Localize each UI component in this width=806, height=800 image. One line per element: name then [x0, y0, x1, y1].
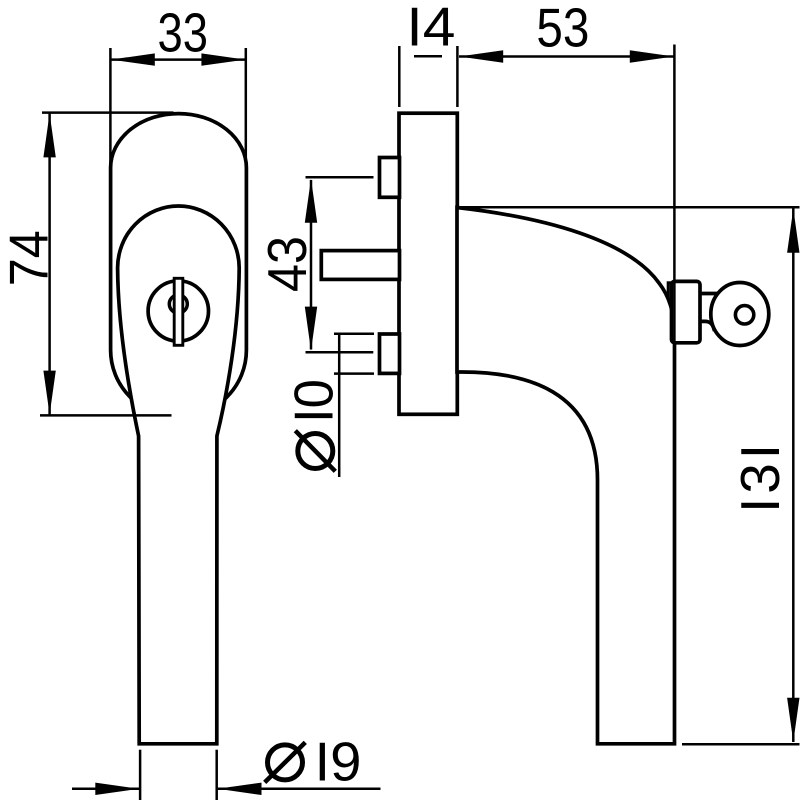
dim 43 arrow top [305, 179, 317, 223]
svg-text:74: 74 [0, 230, 60, 286]
flange behind handle [668, 283, 673, 341]
dim Ø10 leader line [338, 334, 341, 477]
dim 43 arrow bottom [305, 307, 317, 351]
top screw pin [380, 158, 400, 198]
dim 33 line [111, 58, 246, 61]
keyhole outer circle [148, 281, 208, 341]
dim 53 line [459, 55, 674, 58]
keyhole slot bar [174, 278, 183, 345]
dim 53/131 shared extension line (right of handle) [673, 45, 676, 744]
svg-text:33: 33 [158, 1, 209, 63]
bottom screw pin [380, 334, 400, 373]
dim 33 extension line left [109, 48, 112, 166]
lock knob [672, 281, 701, 342]
spindle [321, 251, 399, 280]
dim 131 line [792, 209, 795, 743]
keyhole inner circle [169, 295, 187, 313]
dim 43 extension line bottom [306, 351, 374, 354]
dim Ø19 line left segment [72, 788, 140, 791]
dim 74 arrow top [43, 113, 55, 157]
svg-text:43: 43 [256, 236, 318, 292]
key ring inner circle [735, 306, 753, 324]
dim 14 extension line left [398, 46, 401, 107]
dim 131 bottom extension line [682, 743, 800, 746]
svg-text:I4: I4 [406, 0, 455, 58]
handle side profile [457, 208, 675, 744]
dim Ø19 line right segment [217, 788, 380, 791]
dim Ø10 top bar [334, 333, 374, 336]
dim 53 arrow right [630, 50, 674, 62]
dim Ø10 text [283, 379, 345, 471]
svg-text:53: 53 [536, 0, 589, 59]
dim Ø19 extension line right [215, 750, 218, 800]
dim 53 arrow left [459, 50, 503, 62]
dim 74 arrow bottom [43, 371, 55, 415]
dim 131 arrow bottom [787, 698, 799, 742]
key ring outer circle [711, 283, 769, 346]
rosette outer stadium [111, 114, 247, 417]
svg-text:I0: I0 [283, 379, 345, 423]
dim 33 extension line right [245, 48, 248, 166]
dim Ø19 arrow left [95, 783, 139, 795]
dim 74 extension line top [42, 111, 174, 114]
dim 43 line [310, 180, 313, 350]
dim Ø19 arrow right [218, 783, 262, 795]
handle silhouette (dome + grip) [118, 206, 240, 744]
svg-text:I3I: I3I [729, 444, 791, 513]
dim Ø10 bottom bar [334, 372, 374, 375]
dim 74 extension line bottom [40, 414, 172, 417]
dim 131 top extension line [457, 206, 800, 209]
dim 14 extension line right [456, 46, 459, 107]
dim 14 stub line [414, 55, 442, 58]
dim Ø19 extension line left [139, 750, 142, 800]
key neck top line [700, 292, 719, 296]
dim 33 arrow right [201, 53, 245, 65]
dim 131 arrow top [787, 209, 799, 253]
dim Ø19 text [265, 730, 362, 792]
backplate [399, 113, 457, 414]
dim 33 arrow left [111, 53, 155, 65]
svg-text:I9: I9 [315, 730, 362, 792]
dim 74 line [48, 113, 51, 415]
dim 43 extension line top [306, 176, 374, 179]
key neck bottom line [700, 321, 715, 331]
